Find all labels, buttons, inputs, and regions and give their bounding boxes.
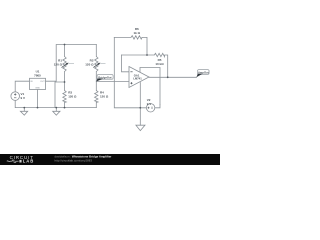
svg-text:9 V: 9 V [147, 102, 152, 106]
junction V2 wire / op-amp V- [139, 107, 141, 109]
wire bridge right tap to op-amp + input [96, 81, 129, 83]
node AmpOut [196, 70, 209, 78]
svg-text:10 kΩ: 10 kΩ [155, 62, 164, 66]
svg-text:http://circuitlab.com/cmy2883: http://circuitlab.com/cmy2883 [55, 158, 93, 162]
ground (op-amp V-) [136, 125, 145, 130]
wire regulator OUT to bridge top rail [46, 45, 97, 82]
label R6 [134, 27, 141, 35]
voltage source V1 [11, 92, 20, 101]
wire bridge left column [64, 45, 66, 57]
junction R6 / feedback row [146, 54, 148, 56]
junction left bridge tap [64, 81, 66, 83]
junction output / feedback [167, 76, 169, 78]
junction ground rail / U1 GND [37, 107, 39, 109]
wire op-amp output to AmpOut [149, 76, 197, 78]
voltage regulator U1 box [30, 78, 46, 89]
label V2 [147, 98, 152, 106]
junction bridge top rail / left column [64, 44, 66, 46]
svg-text:LM741: LM741 [133, 77, 142, 81]
svg-text:9 V: 9 V [21, 96, 26, 100]
svg-text:120 Ω: 120 Ω [85, 62, 94, 66]
wire op-amp V- to ground [139, 83, 141, 126]
voltage source V2 [146, 104, 154, 112]
resistor R2 (pot) zigzag [95, 57, 98, 72]
wire regulator GND down [37, 90, 39, 108]
resistor R4 zigzag [95, 91, 98, 103]
svg-text:120 Ω: 120 Ω [100, 94, 109, 98]
node BridgeOut [96, 75, 113, 82]
resistor R1 wiper arrow [62, 63, 75, 68]
resistor R6 zigzag [131, 36, 142, 39]
label R3 [68, 91, 77, 99]
label R2 [85, 59, 94, 67]
wire R5 row [122, 54, 155, 56]
svg-text:GND: GND [35, 88, 40, 90]
wire V+ supply from V2 [140, 68, 160, 105]
wire V1 top to regulator IN [15, 81, 29, 92]
label V1 [21, 92, 26, 100]
svg-text:7805: 7805 [34, 73, 41, 77]
label U1 [34, 70, 41, 78]
resistor R5 zigzag [154, 53, 164, 56]
ground (bridge left tap) [53, 108, 60, 116]
resistor R3 zigzag [63, 91, 66, 103]
svg-text:LAB: LAB [23, 159, 35, 164]
wire left tap jog to ground [55, 82, 65, 108]
label R5 [155, 58, 164, 66]
resistor R2 wiper arrow [93, 63, 105, 68]
wire V2 right lead [155, 105, 160, 108]
junction ground rail / tap ground [55, 107, 57, 109]
svg-text:1k Ω: 1k Ω [134, 31, 141, 35]
label R1 [54, 59, 63, 67]
svg-text:BridgeOut: BridgeOut [98, 75, 111, 79]
wire row to inverting input [122, 55, 130, 72]
wire R6 branch vertical to ground rail [114, 37, 146, 107]
op-amp OA1 [129, 67, 149, 88]
svg-text:AmpOut: AmpOut [198, 70, 209, 74]
label R4 [100, 91, 109, 99]
resistor R1 (pot) zigzag [63, 57, 66, 72]
wire bottom ground rail [15, 100, 96, 107]
junction ground rail / V1 ground [23, 107, 25, 109]
junction ground rail / R3 [64, 107, 66, 109]
svg-text:OUT: OUT [40, 81, 45, 83]
footer bar [0, 154, 220, 165]
svg-text:120 Ω: 120 Ω [68, 94, 77, 98]
wire bridge right column [95, 45, 97, 57]
logo waveform [7, 160, 19, 162]
ground (V1 rail) [20, 108, 27, 116]
wire R6 top row [114, 36, 131, 38]
svg-text:120 Ω: 120 Ω [54, 62, 63, 66]
